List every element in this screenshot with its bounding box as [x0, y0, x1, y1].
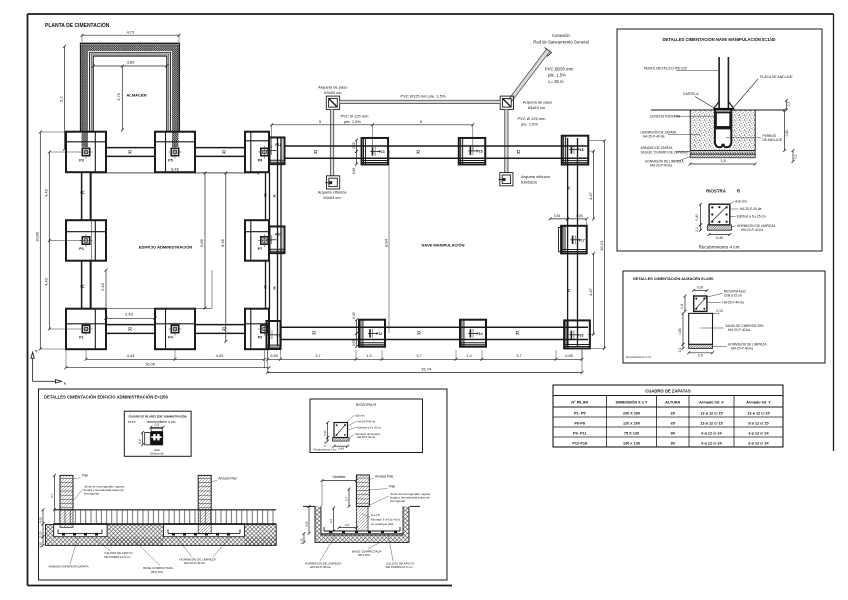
svg-text:3,7: 3,7 — [516, 354, 521, 358]
svg-text:65: 65 — [671, 421, 675, 425]
dim 0,15 — [713, 309, 723, 314]
hormigon limpieza strip nave detail — [690, 154, 755, 158]
svg-text:95% P.M: 95% P.M — [151, 570, 163, 574]
svg-text:0,1: 0,1 — [678, 348, 682, 353]
almacen walls hatched — [81, 43, 180, 131]
almacen limpieza strip — [689, 344, 713, 348]
label ha25 almacen — [707, 301, 744, 305]
svg-text:NAVE MANIPULACIÓN: NAVE MANIPULACIÓN — [421, 243, 464, 248]
riostra R section square — [709, 204, 730, 225]
svg-text:Variable: Variable — [333, 475, 346, 479]
svg-text:R: R — [517, 150, 521, 156]
anchor cage and pernos — [713, 108, 734, 149]
svg-text:HM-20-P-40-IIa: HM-20-P-40-IIa — [650, 164, 672, 168]
cartela gussets — [714, 102, 733, 108]
arqueta sifonica 1 label — [318, 190, 347, 201]
pilar P16 — [569, 330, 583, 339]
svg-text:0,6: 0,6 — [329, 519, 333, 524]
svg-text:Y: Y — [35, 350, 38, 354]
dim 5,2 almacen left — [59, 45, 67, 151]
label zanja cimentacion — [701, 323, 765, 332]
admin inner outline thin — [92, 173, 260, 308]
svg-text:ALTURA: ALTURA — [665, 401, 681, 405]
svg-text:HM-20-P-40-IIa: HM-20-P-40-IIa — [310, 565, 331, 569]
nave bottom dims — [266, 349, 584, 374]
svg-text:DE PARRILLA 5 cm: DE PARRILLA 5 cm — [386, 565, 413, 569]
svg-text:HA-25-P-40-IIa: HA-25-P-40-IIa — [643, 134, 665, 138]
svg-text:hormigonar: hormigonar — [84, 492, 99, 496]
steel column IPE-220 — [719, 57, 728, 108]
svg-text:en arranque pilar: en arranque pilar — [371, 522, 394, 526]
pilar P5 — [168, 146, 181, 163]
right pilar column — [356, 475, 369, 531]
zapata P9 — [267, 321, 281, 349]
svg-text:DE ANCLAJE: DE ANCLAJE — [763, 138, 783, 142]
svg-text:PLANTA DE CIMENTACIÓN: PLANTA DE CIMENTACIÓN — [45, 21, 110, 29]
zapata edge band lines — [359, 136, 590, 349]
svg-text:3,7: 3,7 — [416, 354, 421, 358]
svg-text:P11: P11 — [275, 143, 281, 147]
svg-text:0,36: 0,36 — [352, 168, 356, 174]
svg-text:P18: P18 — [577, 148, 583, 152]
svg-text:P9- P11: P9- P11 — [573, 431, 587, 435]
svg-text:200 X 200: 200 X 200 — [623, 411, 640, 415]
svg-text:130 x 130: 130 x 130 — [623, 441, 640, 445]
dim 8,46 vertical — [220, 171, 227, 343]
svg-text:P3: P3 — [79, 159, 83, 163]
svg-text:0,10: 0,10 — [38, 531, 42, 537]
pilar P12 — [368, 329, 382, 338]
small dims near P13 — [352, 139, 358, 175]
svg-text:R: R — [128, 150, 132, 156]
svg-text:0,40: 0,40 — [716, 236, 723, 240]
svg-text:EDIFICIO ADMINISTRACIÓN: EDIFICIO ADMINISTRACIÓN — [139, 245, 193, 250]
svg-text:6 ø 12 c/ 24: 6 ø 12 c/ 24 — [701, 441, 722, 445]
dim 0,4 left — [680, 295, 687, 313]
svg-text:Armado Inf. X: Armado Inf. X — [699, 401, 724, 405]
left section strip footing — [54, 510, 277, 524]
svg-text:DETALLES CIMENTACIÓN EDIFI: DETALLES CIMENTACIÓN EDIFICIO ADMINISTRA… — [44, 395, 168, 400]
pilar P7 — [258, 234, 271, 251]
right section labels — [305, 475, 431, 570]
pilar P14 — [468, 329, 482, 338]
pilar P2 — [79, 234, 92, 251]
svg-text:13 ø 12 c/ 15: 13 ø 12 c/ 15 — [700, 411, 722, 415]
svg-text:ø16 mm: ø16 mm — [355, 413, 365, 417]
svg-text:0,6: 0,6 — [698, 354, 703, 358]
svg-text:4ø16: 4ø16 — [154, 448, 160, 452]
svg-text:0,10: 0,10 — [323, 441, 327, 447]
conexion red saneamiento label — [533, 33, 588, 45]
cuadro de pilares box — [124, 411, 191, 456]
left section dims — [38, 474, 56, 548]
base compactada hatch left section — [46, 525, 277, 546]
dim 3,75 almacen inner left — [117, 65, 124, 132]
svg-text:Montaje 3 ø 6 (L=1m): Montaje 3 ø 6 (L=1m) — [371, 518, 400, 522]
svg-text:Conexión: Conexión — [552, 33, 570, 38]
svg-text:2,43: 2,43 — [100, 282, 105, 291]
riostra R limpieza strip — [708, 225, 732, 230]
svg-text:0,40: 0,40 — [323, 430, 327, 436]
svg-text:PVC Ø250 mm: PVC Ø250 mm — [545, 67, 574, 72]
narrow zapata bottom bands — [267, 160, 285, 347]
svg-text:Arqueta de paso: Arqueta de paso — [318, 84, 348, 89]
zapata P12 — [359, 320, 385, 347]
dim 4,73 almacen top — [81, 30, 181, 43]
svg-text:6,86: 6,86 — [199, 238, 204, 247]
svg-text:PERFIL METÁLICO IPE-220: PERFIL METÁLICO IPE-220 — [644, 67, 687, 71]
svg-text:N° PILAR: N° PILAR — [571, 401, 588, 405]
svg-text:ALMACÉN: ALMACÉN — [127, 93, 147, 98]
pvc250 label — [545, 67, 574, 85]
svg-text:63x63cm: 63x63cm — [521, 179, 538, 184]
small dims near P12 — [352, 312, 358, 348]
svg-text:ø16 mm: ø16 mm — [735, 199, 747, 203]
nave detail box frame — [617, 29, 822, 251]
nave bottom riostra beams — [281, 327, 589, 339]
svg-text:0,1: 0,1 — [695, 227, 699, 232]
arqueta sifonica 2 label — [521, 174, 550, 185]
label hormigon zapata — [641, 129, 701, 138]
svg-text:R: R — [128, 327, 132, 333]
svg-text:R: R — [312, 331, 316, 337]
dim 6,86 vertical — [199, 171, 207, 309]
svg-text:3,83: 3,83 — [127, 60, 136, 65]
svg-text:PVC Ø 125 mm: PVC Ø 125 mm — [340, 113, 369, 118]
svg-text:4,43: 4,43 — [44, 188, 49, 197]
svg-text:R: R — [417, 331, 421, 337]
pilar P9 — [267, 330, 280, 339]
arqueta sifonica 2 — [499, 173, 514, 186]
svg-text:Arqueta sifónica: Arqueta sifónica — [521, 174, 550, 179]
cuadro de zapatas table — [553, 385, 783, 447]
almacen detail box frame — [623, 271, 825, 363]
small dims near P17 — [549, 214, 589, 226]
nave top riostra beams — [285, 146, 589, 158]
svg-text:pte. 1.5%: pte. 1.5% — [548, 73, 566, 78]
svg-text:0,80: 0,80 — [785, 130, 789, 137]
svg-text:6 ø 12 c/ 24: 6 ø 12 c/ 24 — [701, 431, 722, 435]
label pernos anclaje — [726, 134, 782, 142]
riostra R labels — [727, 199, 776, 232]
svg-text:P5: P5 — [168, 159, 172, 163]
dim 0,1 left strip — [678, 343, 685, 352]
svg-text:PVC Ø125 mm pte. 1.5%: PVC Ø125 mm pte. 1.5% — [401, 93, 446, 98]
label perfil metalico — [644, 67, 719, 71]
svg-text:DETALLES CIMENTACIÓN ALMACÉN: DETALLES CIMENTACIÓN ALMACÉN E=1/50 — [633, 276, 713, 281]
svg-text:Estribos a 6 a 25 cm: Estribos a 6 a 25 cm — [358, 425, 382, 429]
svg-text:P1: P1 — [79, 336, 83, 340]
label placa de anclaje — [733, 75, 793, 108]
svg-text:P10: P10 — [275, 233, 281, 237]
nave right wall beams — [568, 138, 578, 346]
svg-text:8 ø 16: 8 ø 16 — [371, 513, 380, 517]
svg-text:HM-20-P-40-IIa: HM-20-P-40-IIa — [357, 435, 375, 439]
svg-text:0,55: 0,55 — [576, 214, 582, 218]
zapata P13 — [362, 138, 389, 165]
pvc125 vertical pipe 1 — [330, 109, 333, 175]
svg-text:0,7: 0,7 — [344, 497, 348, 502]
svg-text:0,40: 0,40 — [695, 214, 699, 221]
svg-text:P9: P9 — [276, 333, 280, 337]
dim 2,43 near P1 — [100, 269, 157, 320]
admin zapatas P1-P5 200x200 — [66, 132, 195, 350]
svg-text:HM-20-P-40-IIa: HM-20-P-40-IIa — [728, 328, 750, 332]
left pilar column 2 — [198, 475, 211, 533]
svg-text:65: 65 — [671, 411, 675, 415]
svg-text:0,40: 0,40 — [338, 447, 344, 451]
zapata concrete block stippled — [690, 110, 755, 151]
svg-text:4,47: 4,47 — [588, 191, 593, 200]
admin zapatas P6-P8 120x200 — [245, 132, 269, 350]
svg-text:0,1: 0,1 — [794, 154, 798, 159]
svg-text:0,30: 0,30 — [38, 542, 42, 548]
dim 0,6 bottom zanja — [687, 351, 714, 357]
svg-text:0,55: 0,55 — [352, 340, 356, 346]
left pilar column 1 — [60, 475, 73, 527]
admin bottom dims 4,43 4,43 10,06 — [65, 349, 271, 369]
svg-text:63x63 cm: 63x63 cm — [324, 90, 342, 95]
svg-text:0,4: 0,4 — [680, 304, 684, 309]
pilar P1 — [79, 323, 92, 340]
svg-text:R: R — [222, 150, 226, 156]
pilar P13 — [370, 147, 384, 156]
svg-text:0,15: 0,15 — [717, 309, 723, 313]
svg-text:P12: P12 — [376, 332, 382, 336]
svg-text:PVC Ø 125 mm: PVC Ø 125 mm — [517, 116, 546, 121]
svg-text:0,10: 0,10 — [299, 538, 303, 544]
svg-text:10,86: 10,86 — [35, 231, 40, 242]
pilar P8 — [258, 146, 271, 163]
zapata P10 — [270, 226, 285, 253]
svg-text:PLACA DE ANCLAJE: PLACA DE ANCLAJE — [760, 75, 793, 79]
zapata P17 — [561, 226, 587, 254]
pilar P15 — [468, 146, 482, 155]
riostra R title nave box — [706, 189, 741, 194]
svg-text:120 x 200: 120 x 200 — [623, 421, 640, 425]
dim 8,46 horizontal — [90, 167, 261, 175]
svg-text:Armado Pilar: Armado Pilar — [375, 475, 394, 479]
svg-text:HM-20-P-40-IIa: HM-20-P-40-IIa — [741, 228, 763, 232]
almacen riostra section — [694, 296, 707, 311]
pilar P18 — [569, 145, 583, 154]
svg-text:Red de Saneamiento General: Red de Saneamiento General — [533, 40, 588, 45]
svg-text:Arqueta de paso: Arqueta de paso — [523, 99, 553, 104]
svg-text:HM-20-P-40-IIa: HM-20-P-40-IIa — [731, 347, 753, 351]
svg-text:Hormigón de limpieza: Hormigón de limpieza — [355, 432, 381, 436]
zapata P11 — [270, 137, 285, 164]
admin left dims 10,86 and 4,43 — [35, 131, 82, 351]
arqueta paso 2 label — [523, 99, 553, 110]
svg-text:63x63 cm: 63x63 cm — [528, 105, 546, 110]
svg-text:0,30: 0,30 — [697, 286, 704, 290]
svg-text:Recubrimiento 4 cm: Recubrimiento 4 cm — [699, 245, 740, 250]
pilar P3 — [79, 146, 92, 163]
svg-text:4,43: 4,43 — [44, 277, 49, 286]
axis arrows X Y — [31, 350, 67, 386]
svg-text:8 ø 12 c/ 15: 8 ø 12 c/ 15 — [748, 421, 768, 425]
svg-text:Recubrimiento 4 cm: Recubrimiento 4 cm — [626, 355, 652, 359]
internal lines in admin footings — [66, 132, 269, 350]
svg-text:RIOSTRA: RIOSTRA — [706, 189, 727, 194]
dims 5 and 5 top — [270, 119, 474, 151]
svg-text:DETALLES CIMENTACIÓN NAVE M: DETALLES CIMENTACIÓN NAVE MANIPULACIÓN E… — [663, 37, 777, 42]
pilar P17 — [570, 235, 584, 244]
svg-text:15,74: 15,74 — [421, 366, 432, 371]
riostra R dims — [695, 203, 731, 240]
zanja rectangle — [689, 313, 713, 344]
dims right 0,3 0,80 0,1 — [783, 99, 797, 163]
svg-text:1,5: 1,5 — [720, 158, 726, 163]
svg-text:10,24: 10,24 — [599, 240, 604, 251]
svg-text:HA-25-P-40-IIa: HA-25-P-40-IIa — [358, 419, 376, 423]
svg-text:3,75: 3,75 — [117, 93, 121, 100]
arqueta sifonica 1 — [325, 176, 340, 189]
right section pit footing — [303, 506, 420, 542]
svg-text:pte. 1,5%: pte. 1,5% — [344, 119, 361, 124]
arqueta paso 1 label — [318, 84, 348, 95]
svg-text:6 ø 12 c/ 24: 6 ø 12 c/ 24 — [748, 441, 769, 445]
svg-text:0,65: 0,65 — [565, 354, 572, 358]
svg-text:4,73: 4,73 — [127, 30, 136, 35]
svg-text:DIMENSIÓN X x Y: DIMENSIÓN X x Y — [616, 400, 648, 405]
svg-text:Estribos a 6 a 25 cm: Estribos a 6 a 25 cm — [737, 215, 766, 219]
footing boxes hormigon limpieza — [54, 524, 245, 537]
svg-text:recubrimiento 4 cm: recubrimiento 4 cm — [147, 420, 176, 424]
right section dims — [299, 488, 358, 544]
left section labels — [49, 474, 238, 574]
svg-text:10,06: 10,06 — [145, 361, 156, 366]
svg-text:0,7: 0,7 — [50, 494, 54, 499]
svg-text:Armado Inf. Y: Armado Inf. Y — [746, 401, 771, 405]
svg-text:0,65: 0,65 — [38, 517, 42, 523]
svg-text:P6: P6 — [258, 336, 262, 340]
svg-text:HM-20-P-40-IIa: HM-20-P-40-IIa — [184, 561, 205, 565]
svg-text:8,94: 8,94 — [383, 238, 388, 247]
svg-text:8,46: 8,46 — [171, 167, 180, 172]
svg-text:CeB a 15 cm: CeB a 15 cm — [724, 293, 743, 297]
arqueta de paso 2 — [500, 96, 513, 109]
svg-text:P6-P8: P6-P8 — [574, 421, 585, 425]
dim 3,83 almacen inner — [92, 58, 169, 68]
pvc125 v2 label — [517, 116, 546, 126]
label cartela — [683, 92, 715, 108]
svg-text:0,55: 0,55 — [352, 142, 356, 148]
pilar P11 — [267, 143, 282, 155]
svg-text:P13: P13 — [379, 150, 385, 154]
svg-text:CUADRO DE ZAPATAS: CUADRO DE ZAPATAS — [645, 389, 691, 394]
svg-text:75 X 130: 75 X 130 — [624, 431, 639, 435]
svg-text:0,3: 0,3 — [155, 423, 160, 427]
svg-text:80: 80 — [671, 431, 675, 435]
svg-text:HA-25-P-40-IIa: HA-25-P-40-IIa — [722, 301, 744, 305]
svg-text:ARMADO INFERIOR ZAPATA: ARMADO INFERIOR ZAPATA — [49, 565, 89, 569]
pvc 250 diagonal pipe to network — [509, 48, 552, 102]
pvc125 vertical pipe 2 — [505, 109, 508, 172]
pilar P10 — [267, 233, 282, 245]
svg-text:1,3: 1,3 — [366, 354, 371, 358]
ground line nave detail — [651, 109, 785, 111]
svg-text:P14: P14 — [476, 332, 482, 336]
svg-text:P2: P2 — [79, 247, 83, 251]
svg-text:DE PARRILLA 5 cm: DE PARRILLA 5 cm — [104, 555, 131, 559]
nave right dims 4,47 10,24 — [588, 139, 606, 350]
svg-text:Pilar: Pilar — [82, 474, 89, 478]
pilar P6 — [258, 323, 271, 340]
svg-text:R: R — [81, 190, 87, 194]
svg-text:R: R — [416, 150, 420, 156]
dim 0,80 left zanja — [678, 312, 685, 346]
svg-text:P1-P6: P1-P6 — [128, 420, 136, 424]
label armado zapata — [641, 146, 691, 154]
svg-text:0,65: 0,65 — [270, 354, 277, 358]
svg-text:R: R — [81, 284, 87, 288]
svg-text:CARTELA: CARTELA — [683, 92, 699, 96]
svg-text:P15: P15 — [476, 150, 482, 154]
svg-text:4,43: 4,43 — [216, 353, 225, 358]
svg-text:0,36: 0,36 — [554, 214, 560, 218]
svg-text:0,3: 0,3 — [787, 102, 791, 107]
zapata P15 — [459, 138, 486, 165]
label riostra 4o12 — [705, 289, 746, 297]
pvc125 v1 label — [340, 113, 369, 123]
armado strip below zapata — [690, 151, 755, 155]
pit footing armature and limpieza — [321, 527, 403, 535]
svg-text:80: 80 — [671, 441, 675, 445]
svg-text:RIOSTRA R: RIOSTRA R — [356, 403, 377, 407]
dim 8,94 vertical interior — [383, 152, 390, 333]
svg-text:P17: P17 — [579, 238, 585, 242]
svg-text:3,7: 3,7 — [315, 354, 320, 358]
svg-text:R: R — [314, 150, 318, 156]
svg-text:0,65: 0,65 — [304, 521, 308, 527]
pilar P4 — [168, 323, 181, 340]
zapata P18 — [562, 136, 589, 165]
svg-text:1,3: 1,3 — [466, 354, 471, 358]
dim 0,30 top — [692, 286, 708, 293]
svg-text:0,80: 0,80 — [678, 328, 682, 335]
svg-text:hormigonar: hormigonar — [390, 499, 405, 503]
svg-text:P12-P18: P12-P18 — [572, 441, 587, 445]
svg-text:P8: P8 — [258, 159, 262, 163]
pvc125 horizontal pipe — [340, 100, 501, 103]
svg-text:0,3: 0,3 — [345, 523, 349, 527]
svg-text:63x63 cm: 63x63 cm — [323, 195, 341, 200]
svg-text:0,35: 0,35 — [352, 312, 356, 318]
svg-text:HA-25-P-40-IIa: HA-25-P-40-IIa — [740, 207, 762, 211]
svg-text:pte. 1,5%: pte. 1,5% — [521, 121, 538, 126]
label hormigon limpieza nave det — [645, 157, 690, 168]
arqueta de paso 1 — [326, 96, 339, 109]
svg-text:P1- P5: P1- P5 — [574, 411, 586, 415]
admin-nave boundary beams vertical — [266, 138, 282, 346]
svg-text:Recubrimiento 4 cm: Recubrimiento 4 cm — [314, 448, 337, 452]
svg-text:Pilar: Pilar — [389, 485, 396, 489]
zapata P16 — [564, 320, 590, 348]
svg-text:P4: P4 — [168, 336, 172, 340]
svg-text:4,43: 4,43 — [127, 353, 136, 358]
variable dim — [321, 475, 358, 506]
pilaster tabs — [281, 138, 563, 252]
admin perimeter riostra beams — [82, 148, 245, 334]
label hormigon limpieza almacen — [713, 341, 768, 350]
svg-text:8,46: 8,46 — [220, 238, 225, 247]
svg-text:3 ø 12 c/ 24: 3 ø 12 c/ 24 — [748, 431, 769, 435]
svg-text:0,3: 0,3 — [138, 439, 142, 444]
zapata P14 — [460, 320, 486, 347]
svg-text:Estribos ø6: Estribos ø6 — [150, 452, 164, 456]
admin detail box frame — [39, 389, 448, 580]
